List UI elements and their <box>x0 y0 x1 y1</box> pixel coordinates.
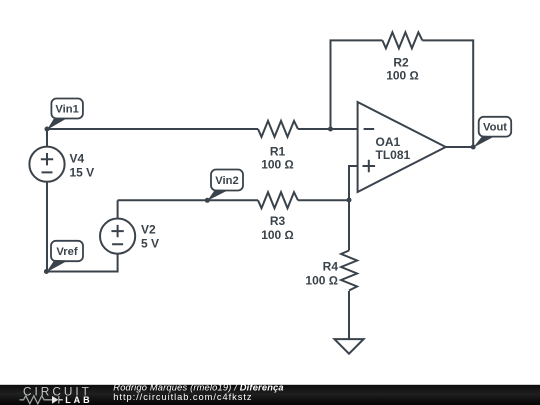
svg-text:http://circuitlab.com/c4fkstz: http://circuitlab.com/c4fkstz <box>113 392 252 402</box>
svg-text:5 V: 5 V <box>141 237 159 251</box>
svg-text:Vout: Vout <box>483 122 507 134</box>
svg-text:15 V: 15 V <box>70 166 95 180</box>
svg-text:100 Ω: 100 Ω <box>261 228 294 242</box>
svg-text:OA1: OA1 <box>376 135 401 149</box>
svg-text:TL081: TL081 <box>376 148 411 162</box>
svg-text:Vin2: Vin2 <box>215 175 238 187</box>
svg-text:R1: R1 <box>270 144 286 158</box>
svg-text:V2: V2 <box>141 223 156 237</box>
svg-text:100 Ω: 100 Ω <box>386 69 419 83</box>
svg-text:Vin1: Vin1 <box>55 104 78 116</box>
svg-text:Rodrigo Marques (rmelo19) / Di: Rodrigo Marques (rmelo19) / Diferença <box>113 383 283 393</box>
svg-text:R3: R3 <box>270 214 286 228</box>
svg-text:R4: R4 <box>323 260 339 274</box>
svg-text:100 Ω: 100 Ω <box>261 158 294 172</box>
svg-text:Vref: Vref <box>56 246 77 258</box>
svg-text:R2: R2 <box>393 55 409 69</box>
svg-text:LAB: LAB <box>65 395 93 405</box>
svg-text:100 Ω: 100 Ω <box>305 274 338 288</box>
svg-text:V4: V4 <box>70 152 85 166</box>
